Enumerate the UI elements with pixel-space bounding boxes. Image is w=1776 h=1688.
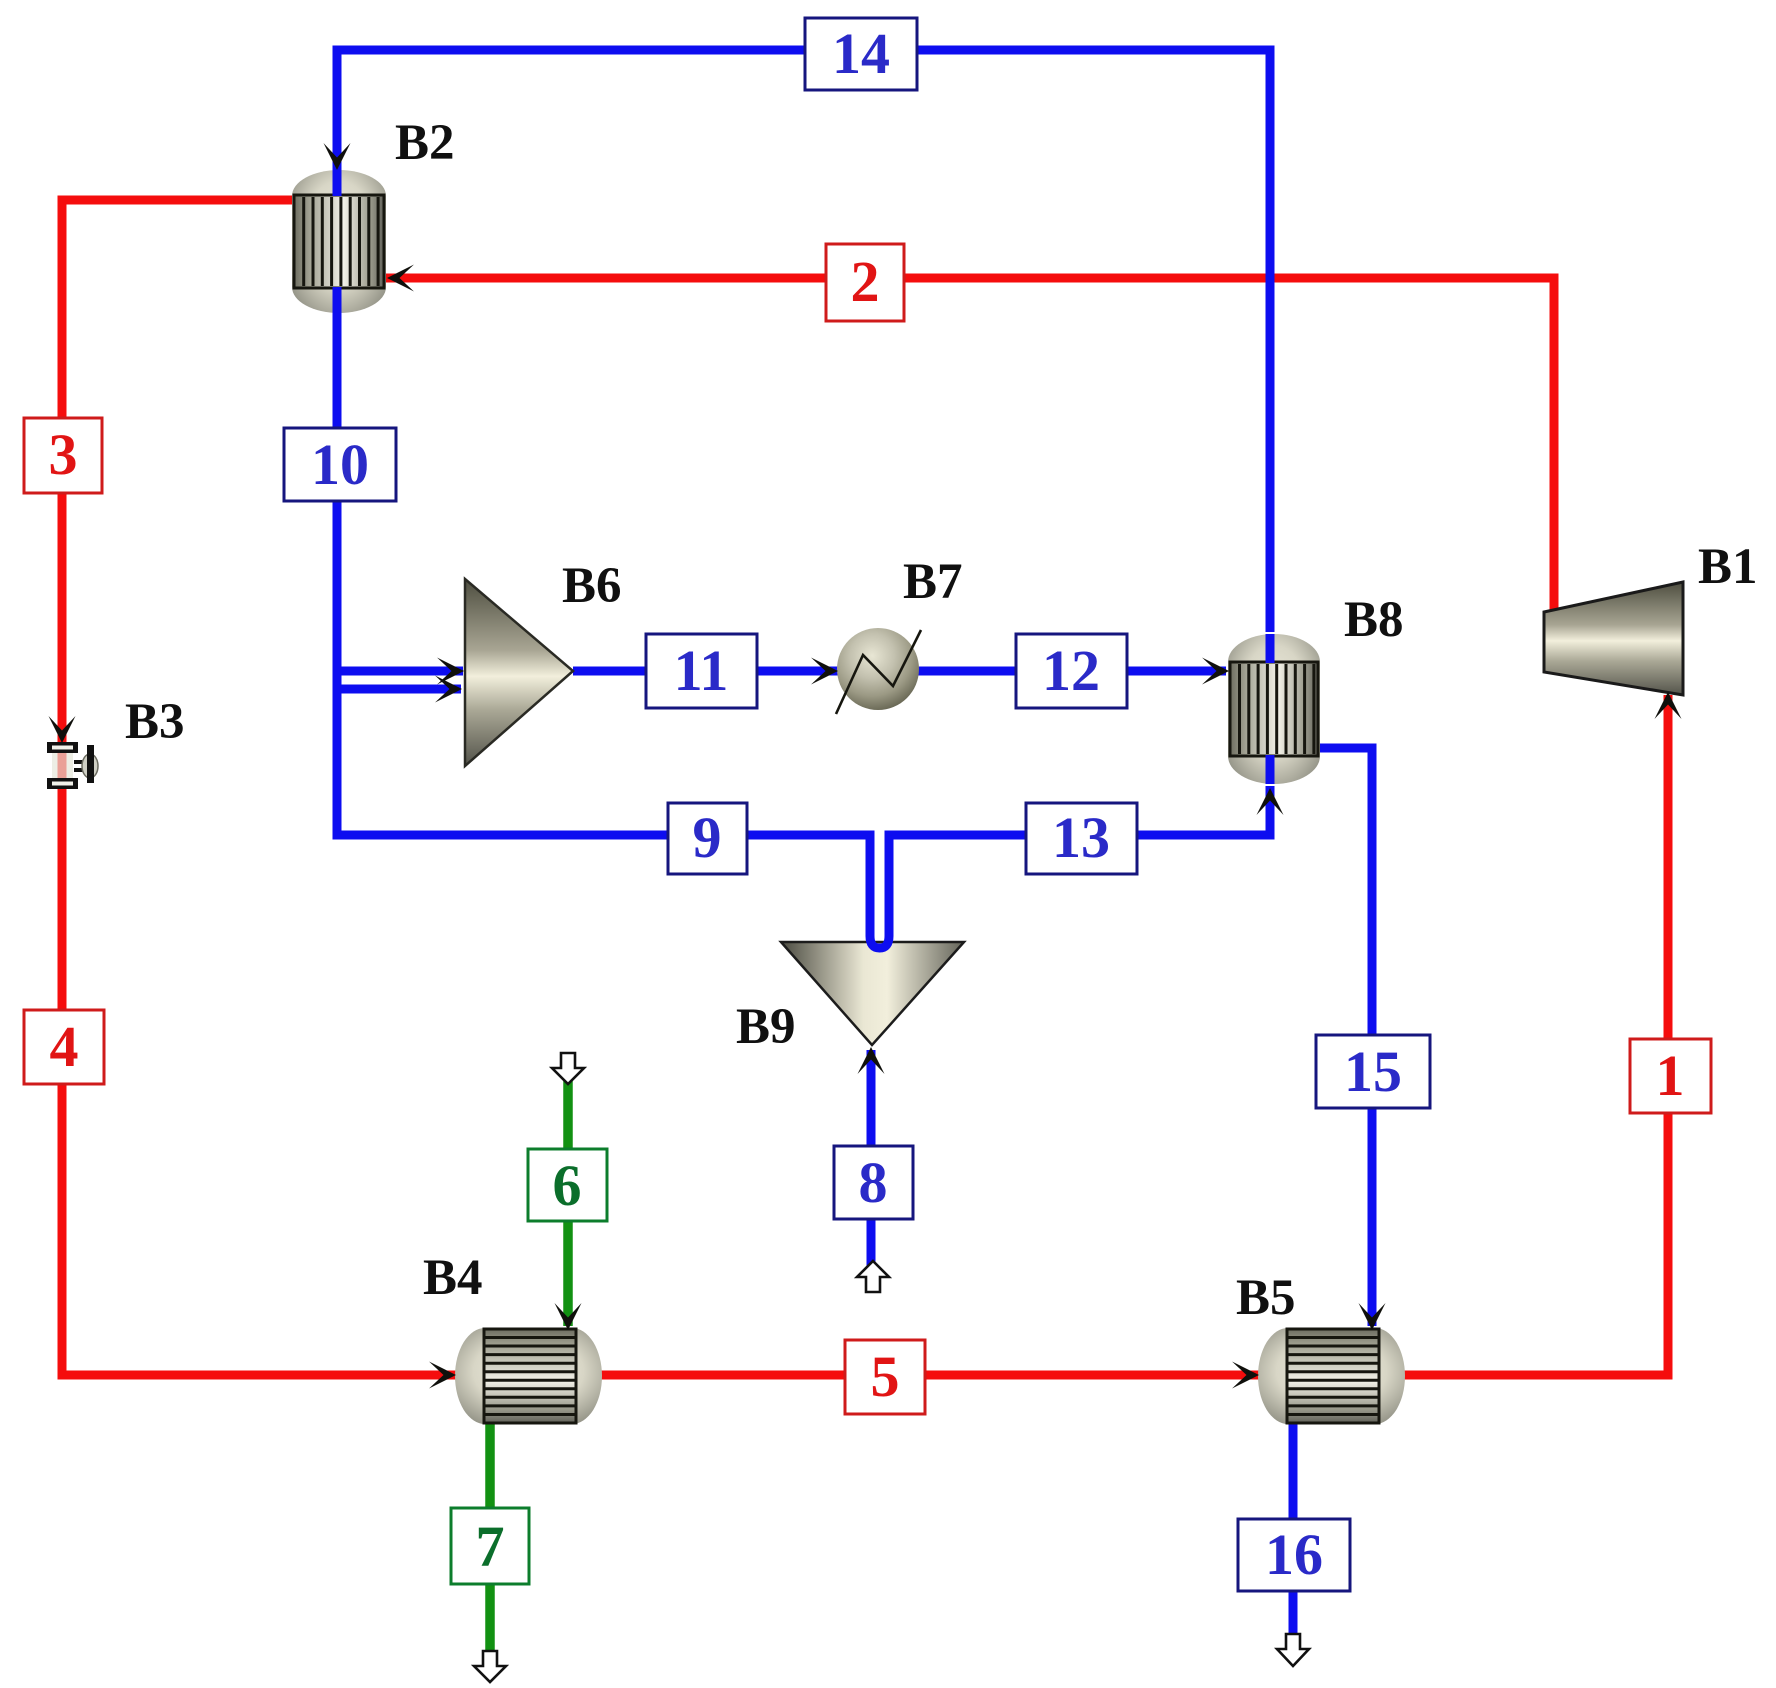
- svg-text:11: 11: [674, 638, 729, 703]
- node 13: [1026, 803, 1137, 874]
- arrow into B6 upper inlet: [437, 658, 464, 685]
- node 10: [284, 428, 396, 501]
- valve B3: [47, 742, 98, 789]
- hollow arrow product stream 7: [474, 1651, 506, 1682]
- wire stream 11 + 12 : B6 apex to heater B7 to B8 left: [573, 667, 1226, 676]
- arrow into B5 top: [1359, 1303, 1386, 1330]
- svg-text:B5: B5: [1236, 1270, 1296, 1326]
- svg-text:12: 12: [1042, 638, 1100, 703]
- arrow into B2 right: [387, 265, 414, 292]
- arrow into valve B3: [49, 716, 76, 743]
- svg-text:14: 14: [832, 21, 890, 86]
- node 11: [646, 634, 757, 708]
- svg-text:5: 5: [871, 1344, 900, 1409]
- wire stream 5 : B4 to B5: [600, 1371, 1260, 1380]
- svg-text:B4: B4: [423, 1250, 483, 1306]
- svg-text:15: 15: [1344, 1039, 1402, 1104]
- node 1: [1630, 1039, 1711, 1113]
- svg-text:B7: B7: [903, 554, 963, 610]
- arrow into heater B7: [811, 658, 838, 685]
- svg-text:9: 9: [693, 805, 722, 870]
- turbine B6 (right-pointing triangle): [465, 579, 573, 766]
- svg-text:13: 13: [1052, 805, 1110, 870]
- svg-text:B8: B8: [1344, 592, 1404, 648]
- hollow arrow feed stream 8: [857, 1261, 889, 1292]
- wire B6 upper inlet stub: [337, 667, 463, 676]
- svg-text:6: 6: [553, 1153, 582, 1218]
- arrow into B5 left: [1232, 1362, 1259, 1389]
- node 8: [834, 1146, 913, 1219]
- svg-text:4: 4: [50, 1014, 79, 1079]
- node 6: [528, 1149, 607, 1221]
- svg-text:B9: B9: [736, 999, 796, 1055]
- hollow arrow product stream 16: [1277, 1634, 1309, 1666]
- svg-text:B2: B2: [395, 115, 455, 171]
- wire stream 15 : B8 right down to B5 top: [1316, 748, 1372, 1326]
- wire stream 3 + 4 : B2 left, down through valve B3, right to B4: [62, 200, 457, 1375]
- arrow into B8 bottom: [1257, 788, 1284, 815]
- node 9: [668, 803, 747, 874]
- node 3: [24, 418, 102, 493]
- arrow into B2 top: [324, 143, 351, 170]
- arrow into B1 bottom: [1655, 692, 1682, 719]
- wire stream 7 : B4 bottom down to product arrow: [485, 1422, 495, 1653]
- hollow arrow feed stream 6: [552, 1053, 584, 1084]
- node 7: [451, 1508, 529, 1584]
- svg-text:B6: B6: [562, 558, 622, 614]
- wire B6 lower inlet stub: [337, 685, 461, 694]
- svg-text:3: 3: [49, 422, 78, 487]
- svg-text:B3: B3: [125, 694, 185, 750]
- compressor B9 (down triangle, drawn under blue lines): [781, 942, 964, 1045]
- svg-text:1: 1: [1656, 1043, 1685, 1108]
- svg-text:10: 10: [311, 432, 369, 497]
- heater B7 (sphere with zigzag): [836, 628, 921, 714]
- node 15: [1316, 1035, 1430, 1108]
- wire stream 1 : B5 right, up to compressor B1: [1403, 695, 1668, 1375]
- node 4: [24, 1010, 104, 1084]
- heat exchanger B8: [1228, 634, 1320, 784]
- svg-text:8: 8: [859, 1150, 888, 1215]
- node 5: [845, 1340, 925, 1414]
- wire stream 16 : B5 bottom down to product arrow: [1289, 1422, 1298, 1634]
- arrow into B6 lower inlet: [435, 676, 462, 703]
- heat exchanger B5: [1258, 1328, 1405, 1424]
- arrow into B4 left: [429, 1362, 456, 1389]
- wire stream 10 + 9 + 13 : B2 bottom down, right, U at B9, right, up to B8 bottom: [337, 310, 1270, 948]
- svg-text:2: 2: [851, 249, 880, 314]
- node 12: [1016, 634, 1127, 708]
- arrow into B8 left: [1202, 658, 1229, 685]
- wire stream 6 : feed down into B4 top: [563, 1081, 573, 1326]
- arrow into B9 apex: [858, 1047, 885, 1074]
- heat exchanger B2: [292, 170, 386, 313]
- arrow into B4 top: [555, 1303, 582, 1330]
- node 2: [826, 244, 904, 321]
- svg-text:B1: B1: [1698, 539, 1758, 595]
- node 16: [1238, 1519, 1350, 1591]
- wire stream 2 : B1 top up, left to B2: [386, 278, 1554, 614]
- heat exchanger B4: [455, 1328, 602, 1424]
- svg-text:7: 7: [476, 1514, 505, 1579]
- wire stream 14 : B2 top up, right, down to B8: [337, 50, 1270, 632]
- wire stream 8 : feed up into B9 apex: [867, 1050, 876, 1293]
- svg-text:16: 16: [1265, 1522, 1323, 1587]
- compressor B1 (trapezoid): [1544, 582, 1683, 695]
- node 14: [805, 18, 917, 90]
